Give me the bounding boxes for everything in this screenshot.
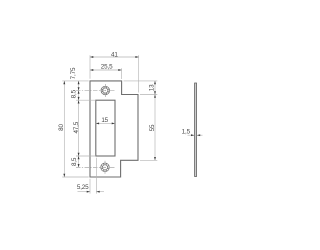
dimension 1,5 arrows xyxy=(191,134,200,136)
dimension 41 arrows xyxy=(90,56,139,58)
svg-text:13: 13 xyxy=(149,84,156,91)
lower screw hole countersink ticks xyxy=(101,163,109,171)
dimension 80 line xyxy=(63,81,65,177)
dimension 41 extension lines xyxy=(90,55,139,92)
svg-text:8,5: 8,5 xyxy=(71,89,78,98)
svg-text:80: 80 xyxy=(58,124,65,131)
lower screw hole inner circle xyxy=(102,165,107,170)
svg-text:5,25: 5,25 xyxy=(77,184,89,191)
upper screw hole countersink ticks xyxy=(101,87,109,95)
left extension lines and chain dimension line xyxy=(62,81,96,177)
dimension 7,75 arrows xyxy=(78,81,80,91)
dimension 15 line xyxy=(96,122,115,124)
dimension 55 extension line xyxy=(140,95,157,161)
dimension 47,5 arrows xyxy=(78,100,80,156)
dimension 15 arrows xyxy=(96,122,115,124)
side view plate bar xyxy=(195,83,197,177)
svg-text:1,5: 1,5 xyxy=(182,129,191,136)
dimension 55 arrows xyxy=(154,95,156,161)
upper screw hole centerline vertical xyxy=(104,84,106,97)
dimension 5,25 arrows xyxy=(87,191,100,193)
dimension 13 arrows xyxy=(154,81,156,95)
dimension 13 extension lines xyxy=(124,81,158,95)
plate outline (front view) xyxy=(90,81,138,177)
dimension 8,5 upper arrows xyxy=(78,91,80,101)
dimension 25,5 arrows xyxy=(90,69,122,71)
upper screw hole inner circle xyxy=(103,88,108,93)
svg-text:55: 55 xyxy=(149,124,156,131)
dimension 5,25 extension lines xyxy=(78,158,105,194)
lower screw hole centerline vertical xyxy=(104,161,106,174)
svg-text:8,5: 8,5 xyxy=(71,157,78,166)
svg-text:25,5: 25,5 xyxy=(101,64,113,71)
svg-text:15: 15 xyxy=(101,117,108,124)
svg-text:7,75: 7,75 xyxy=(70,67,77,79)
dimension 1,5 lines xyxy=(188,134,203,136)
lower screw hole outer circle xyxy=(101,163,110,172)
upper screw hole outer circle xyxy=(101,86,110,95)
svg-text:41: 41 xyxy=(111,52,118,59)
svg-text:47,5: 47,5 xyxy=(73,121,80,133)
dimension 80 arrows xyxy=(63,81,65,177)
dimension 25,5 extension line xyxy=(90,68,122,79)
latch slot cutout xyxy=(96,100,115,156)
dimension 8,5 lower arrows xyxy=(78,156,80,167)
upper screw hole centerline horizontal xyxy=(76,90,115,92)
lower screw hole centerline horizontal xyxy=(76,166,115,168)
